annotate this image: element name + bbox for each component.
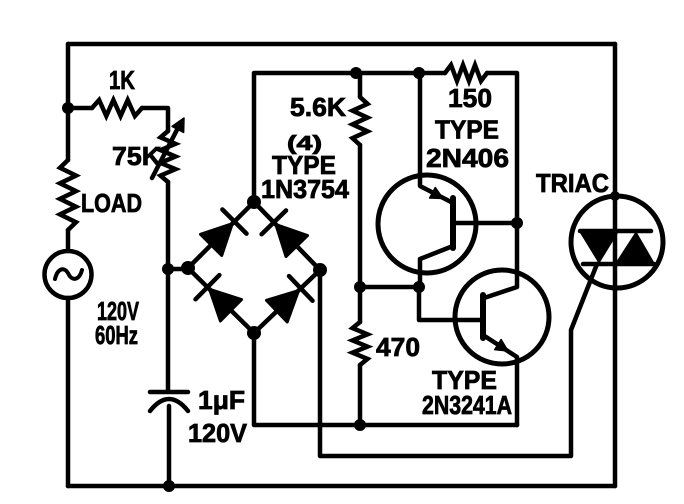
node 5.6K top bbox=[350, 67, 362, 79]
capacitor C1 1uF bbox=[166, 269, 171, 390]
wire pot to junction bbox=[166, 182, 171, 269]
svg-text:60Hz: 60Hz bbox=[95, 320, 138, 350]
node 1K left bbox=[62, 102, 74, 114]
diode D1 upper-left bbox=[201, 224, 233, 256]
node 5.6K-470 junction bbox=[354, 281, 366, 293]
svg-text:150: 150 bbox=[448, 83, 492, 113]
node Q1 collector junction bbox=[413, 281, 425, 293]
bridge rectifier arms bbox=[188, 202, 320, 333]
node pot-cap-bridge junction bbox=[162, 263, 174, 275]
wire left rail bbox=[66, 44, 71, 486]
svg-text:120V: 120V bbox=[188, 418, 248, 448]
svg-text:LOAD: LOAD bbox=[81, 188, 142, 218]
node bridge right bbox=[313, 263, 327, 277]
wire emitter rail to bridge bottom bbox=[254, 333, 517, 425]
node bridge top bbox=[247, 195, 261, 209]
triac TR1 bbox=[571, 196, 663, 288]
node triac top bbox=[610, 191, 620, 201]
svg-text:75K: 75K bbox=[112, 141, 161, 171]
wire bridge top to dc+ rail bbox=[254, 73, 445, 202]
transistor Q2 2N3241A bbox=[455, 270, 549, 364]
node bridge bottom bbox=[247, 326, 261, 340]
diode D2 upper-right bbox=[276, 225, 308, 257]
svg-text:2N406: 2N406 bbox=[426, 143, 509, 173]
resistor R4 470 bbox=[358, 287, 363, 322]
svg-text:470: 470 bbox=[376, 332, 420, 362]
svg-text:5.6K: 5.6K bbox=[290, 92, 346, 122]
node Q1 emitter bbox=[413, 67, 425, 79]
svg-text:1μF: 1μF bbox=[198, 385, 245, 415]
wire right rail through triac bbox=[613, 44, 618, 486]
node cap bottom bbox=[163, 480, 175, 492]
resistor R3 150 bbox=[445, 65, 487, 81]
resistor R2 5.6K bbox=[358, 73, 363, 97]
wire junction to Q1 collector bbox=[360, 285, 419, 290]
node 470 bottom bbox=[354, 419, 366, 431]
wire Q1 collector to Q2 base bbox=[419, 287, 481, 320]
svg-text:TYPE: TYPE bbox=[435, 115, 499, 145]
diode D3 lower-left bbox=[210, 289, 242, 321]
node Q1 base / R3 bbox=[511, 217, 523, 229]
node bridge left bbox=[181, 261, 195, 275]
svg-text:1N3754: 1N3754 bbox=[261, 174, 350, 204]
AC source V1 bbox=[45, 251, 92, 298]
resistor R1 1K bbox=[68, 108, 168, 131]
wire triac gate to bridge right bbox=[320, 264, 597, 456]
svg-text:TRIAC: TRIAC bbox=[536, 168, 609, 198]
transistor Q1 2N406 bbox=[378, 175, 476, 273]
wire bottom rail bbox=[68, 484, 615, 489]
wire junction to bridge left bbox=[168, 267, 188, 272]
resistor R load LOAD bbox=[60, 160, 76, 230]
svg-text:2N3241A: 2N3241A bbox=[422, 390, 512, 420]
wire top rail bbox=[68, 42, 615, 47]
diode D4 lower-right bbox=[267, 291, 299, 323]
potentiometer 75K bbox=[161, 131, 176, 182]
svg-text:1K: 1K bbox=[109, 65, 135, 95]
